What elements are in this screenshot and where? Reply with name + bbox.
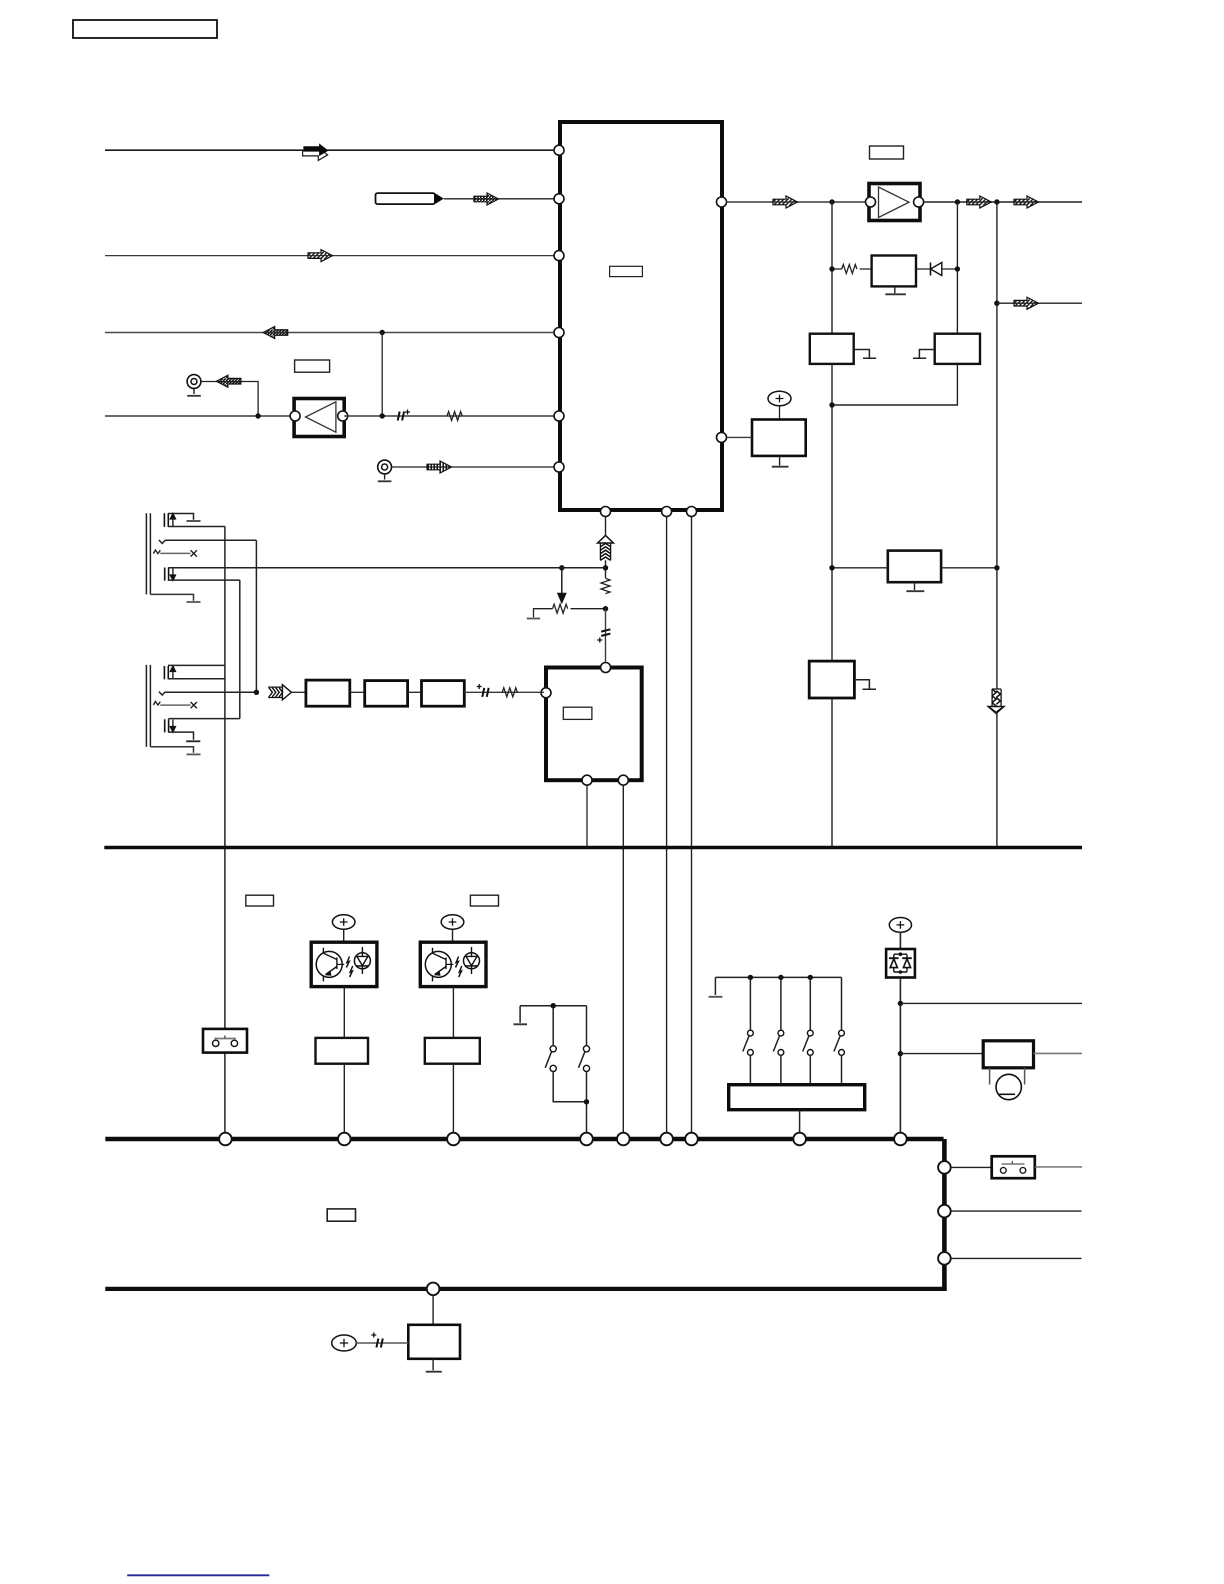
- wire opto1 to R box: [343, 987, 345, 1038]
- bus pin battery: [427, 1283, 440, 1296]
- hatched arrow (left) J1 wire: [216, 375, 241, 387]
- regulator box B3: [752, 420, 806, 456]
- wire box2-box3: [408, 691, 422, 693]
- pin 1 (IC left): [554, 145, 564, 155]
- hatched arrow IC out: [773, 196, 798, 208]
- node junction R3 bottom: [603, 606, 608, 611]
- ground under B4: [906, 582, 924, 591]
- leaf switch box SW2: [992, 1156, 1035, 1178]
- pin amp out: [914, 197, 924, 207]
- chevron right arrow head chain: [268, 685, 291, 700]
- wire SW2 out (gray): [1035, 1166, 1082, 1168]
- wire E4 to diode box: [899, 932, 901, 949]
- mode switch bank common line: [715, 976, 841, 978]
- battery box BB: [408, 1325, 460, 1359]
- wire RB1 to bus: [343, 1064, 345, 1133]
- switch contact row B2: [159, 692, 166, 695]
- chevron up arrow on rec line: [598, 535, 614, 560]
- wire U4 b2 to bus: [622, 785, 624, 1133]
- bus pin keybox: [793, 1133, 806, 1146]
- wire diode box down: [899, 978, 901, 1134]
- digital ground B1: [854, 350, 877, 359]
- wire fb: [860, 268, 958, 270]
- hatched arrow on wire 2: [474, 193, 499, 205]
- wire IC pin to B3: [727, 436, 753, 438]
- label box above buffer: [295, 360, 330, 372]
- wire head2 rec bottom to cap: [168, 732, 193, 740]
- capacitor C3 (polarized): [477, 684, 489, 697]
- vertical rail x997: [996, 202, 998, 847]
- wire row C to X: [160, 552, 190, 554]
- bus pin right v1: [938, 1161, 951, 1174]
- wire box3 to cap: [464, 691, 544, 693]
- pin rec (IC bottom 1): [601, 507, 611, 517]
- wire B4 right: [941, 567, 997, 569]
- pin block2 left: [541, 688, 551, 698]
- vertical rail x957: [956, 202, 958, 334]
- wire row B: [166, 539, 257, 541]
- resistor box RB1: [316, 1038, 369, 1064]
- node junction x997 y303: [994, 301, 999, 306]
- bus pin u4b2: [617, 1133, 630, 1146]
- head 1 rec element (bars + down arrow): [165, 568, 176, 581]
- wire row C2 to X: [160, 704, 190, 706]
- opto coupler PC1: [311, 942, 377, 986]
- wire xA down to bus: [224, 665, 226, 1133]
- wire box1-box2: [350, 691, 365, 693]
- pin block2 bottom2: [618, 775, 628, 785]
- hatched arrow after amp: [967, 196, 992, 208]
- wire E2 to opto1: [343, 929, 345, 942]
- pin b3 (IC bottom 3): [687, 507, 697, 517]
- digital ground B2: [913, 350, 935, 359]
- hatched arrow y303: [1014, 297, 1039, 309]
- wire B4 left: [832, 567, 888, 569]
- bus pin icb2: [660, 1133, 673, 1146]
- pot resistor R4: [553, 604, 568, 613]
- eq box 1: [306, 680, 350, 706]
- supply ellipse E3: [441, 915, 464, 929]
- node junction motor feed 1: [898, 1001, 903, 1006]
- wire row B2 to junction: [165, 691, 256, 693]
- wire E5 to cap: [356, 1342, 408, 1344]
- head assembly 2 chassis line to ground: [150, 747, 193, 753]
- bus pin xA: [219, 1133, 232, 1146]
- wire battery box: [432, 1295, 434, 1325]
- pin block2 bottom1: [582, 775, 592, 785]
- bus pin opto1: [338, 1133, 351, 1146]
- pin 6 (IC left): [554, 462, 564, 472]
- bus pin right v2: [938, 1205, 951, 1218]
- node junction bank1: [748, 975, 753, 980]
- ALC box B6: [872, 256, 916, 287]
- resistor box RB2: [425, 1038, 480, 1064]
- head assembly 1 chassis line to ground: [150, 594, 193, 600]
- wire E1 to B3: [779, 406, 781, 420]
- head 2 rec element (bars + down arrow): [165, 719, 176, 732]
- bus pin dpdt: [580, 1133, 593, 1146]
- node junction motor feed 2: [898, 1051, 903, 1056]
- node junction bank3: [808, 975, 813, 980]
- vertical link rail xB: [255, 540, 257, 692]
- wire to motor box: [900, 1053, 983, 1055]
- striped arrow on wire 6: [427, 461, 452, 473]
- IC U1 internal label box: [610, 266, 643, 276]
- wire E3 to opto2: [452, 929, 454, 942]
- feedback resistor R2: [842, 265, 857, 274]
- main bus (top run): [105, 1137, 943, 1142]
- switch contact row B: [159, 540, 166, 543]
- U4 internal label box: [563, 707, 592, 719]
- bus pin icb3: [685, 1133, 698, 1146]
- box B1 (mute sw): [810, 334, 854, 364]
- hatched arrow on wire 3: [308, 250, 333, 262]
- bus pin right v3: [938, 1252, 951, 1265]
- head 2 bottom lead to rail xA: [168, 678, 225, 680]
- vertical rail x832: [831, 202, 833, 847]
- node junction DPDT bottom: [584, 1099, 589, 1104]
- branch wire from wire4 down to wire5: [381, 333, 383, 417]
- ground under BB: [426, 1359, 442, 1372]
- eq box 3: [422, 681, 465, 707]
- box B4 (power switch circuit): [888, 551, 941, 583]
- vertical resistor R3: [601, 578, 610, 593]
- bus pin motor rail: [894, 1133, 907, 1146]
- head assembly 1 shield bracket: [146, 513, 150, 594]
- node junction J1 branch / wire5: [255, 413, 260, 418]
- switch bank contact 1: [743, 977, 754, 1084]
- motor M1: [990, 1068, 1025, 1100]
- wire amp out to edge: [924, 201, 1082, 203]
- head 1 erase element (bars + up arrow): [164, 513, 175, 527]
- node junction x957: [955, 199, 960, 204]
- node junction DPDT top: [551, 1003, 556, 1008]
- key encoder box KB: [729, 1085, 865, 1110]
- wire x832 to R2: [832, 268, 842, 270]
- label box L5: [327, 1209, 355, 1221]
- ground pot: [527, 618, 540, 620]
- node junction elbow: [829, 402, 834, 407]
- wire head1 rec bottom: [168, 579, 240, 581]
- capacitor C4 (polarized): [371, 1333, 383, 1348]
- pin b2 (IC bottom 2): [662, 507, 672, 517]
- node junction rec/head wire: [603, 565, 608, 570]
- diode D1: [931, 263, 942, 276]
- ground sw bank: [714, 977, 716, 995]
- wire bus out y1211: [951, 1210, 1082, 1212]
- DPDT pause switch group: [514, 1006, 590, 1133]
- pin 4 (IC left): [554, 328, 564, 338]
- pin 5 (IC left): [554, 411, 564, 421]
- pot left lead to ground: [534, 609, 553, 618]
- pin block2 top: [601, 663, 611, 673]
- pin buffer left: [290, 411, 300, 421]
- wire input 1: [105, 149, 554, 151]
- leaf switch box SW1: [203, 1029, 247, 1053]
- switch bank contact 2: [773, 977, 784, 1084]
- eq box 2: [365, 681, 408, 707]
- wire arrow to eq boxes: [292, 691, 306, 693]
- pin supply (IC right): [717, 432, 727, 442]
- head 2 play element (bars + up arrow): [164, 666, 175, 679]
- resistor R1: [447, 412, 462, 421]
- motor governor box MB: [983, 1041, 1033, 1068]
- label box section L3: [246, 895, 274, 906]
- wire bus to SW2: [951, 1166, 992, 1168]
- footer rule (blue): [127, 1574, 269, 1576]
- pin out (IC right, audio out): [717, 197, 727, 207]
- pin buffer right: [338, 411, 348, 421]
- head 1 top lead to ground: [168, 514, 194, 520]
- node junction at x832: [829, 199, 834, 204]
- node junction x997: [994, 199, 999, 204]
- node junction bank2: [778, 975, 783, 980]
- separator line: [104, 846, 1082, 850]
- node junction buffer out: [380, 413, 385, 418]
- wire input 3: [105, 255, 554, 257]
- node junction x957 fb: [955, 266, 960, 271]
- jack J2 (aux connector): [378, 460, 392, 481]
- switch bank contact 3: [803, 977, 813, 1084]
- wire B2 bottom elbow to rail x832: [832, 364, 957, 405]
- switch contact row C (nc): [153, 550, 160, 554]
- hatched down arrow on x997 rail: [988, 689, 1004, 713]
- wire IC b3 down to bus: [691, 517, 693, 1134]
- digital ground B5: [854, 680, 876, 690]
- supply ellipse E2: [332, 915, 355, 929]
- wire head2 rec top to rail xC: [168, 718, 240, 720]
- switch contact row C2 (nc): [153, 701, 160, 705]
- wire input 4: [105, 332, 554, 334]
- node junction wire4/branch: [380, 330, 385, 335]
- node junction x832 fb: [829, 266, 834, 271]
- wire IC out to amp: [727, 201, 871, 203]
- head 2 top lead to rail xA: [168, 664, 225, 666]
- wire opto2 to R box: [452, 987, 454, 1038]
- supply ellipse E5: [332, 1335, 357, 1351]
- capacitor C1 (polarized, coupling): [398, 410, 410, 421]
- vertical link rail xC: [239, 580, 241, 719]
- pot wiper arrow: [558, 568, 566, 603]
- wire input 6: [392, 466, 554, 468]
- vertical link rail xA: [224, 527, 226, 666]
- power supply ellipse E1: [768, 391, 791, 406]
- buffer U3 (inverting stage): [294, 399, 344, 437]
- diode pack DB1 (spark suppressor): [886, 949, 915, 978]
- pin 2 (IC left): [554, 194, 564, 204]
- label box above amp U2: [870, 146, 904, 159]
- ground under B3: [772, 456, 789, 467]
- wire KB to bus: [799, 1110, 801, 1133]
- IC U4 (record/playback block): [546, 668, 642, 781]
- pin amp in: [866, 197, 876, 207]
- wire IC b2 down to bus: [666, 517, 668, 1134]
- wire from J1: [201, 382, 258, 417]
- connector label flag on wire 2: [376, 193, 435, 204]
- node junction row B2: [254, 690, 259, 695]
- box B5 (reg): [809, 661, 854, 698]
- pin 3 (IC left): [554, 251, 564, 261]
- resistor R5: [502, 688, 517, 697]
- wire IC b1 down: [605, 517, 607, 579]
- opto coupler PC2: [420, 942, 486, 986]
- head 1 bottom lead (wire): [168, 526, 225, 528]
- node junction B4 right: [994, 565, 999, 570]
- main bus (bottom run): [105, 1287, 946, 1291]
- node junction pot tap: [559, 565, 564, 570]
- wire 2: [444, 198, 554, 200]
- wire out y303: [997, 302, 1082, 304]
- supply ellipse E4: [889, 918, 911, 933]
- wire buffer out: [344, 415, 554, 417]
- wire down to cap: [605, 609, 607, 662]
- capacitor plate head2: [186, 740, 200, 742]
- bus pin opto2: [447, 1133, 460, 1146]
- head assembly 2 shield bracket: [146, 665, 150, 747]
- jack J1 (mic/line connector): [187, 375, 201, 396]
- title block (empty label box): [73, 20, 217, 38]
- wire out y1003: [900, 1002, 1082, 1004]
- ground under B6: [885, 286, 906, 294]
- solid signal arrow on wire 1: [303, 148, 328, 161]
- wire U4 b1 to separator: [586, 785, 588, 846]
- amp U2 (output amplifier): [869, 184, 920, 221]
- wire pot to rail: [571, 608, 606, 610]
- switch bank contact 4: [834, 977, 844, 1084]
- hatched arrow to edge: [1014, 196, 1039, 208]
- wire motor box out (gray): [1034, 1052, 1083, 1054]
- wire bus out y1258: [951, 1257, 1082, 1259]
- label box section L4: [470, 895, 498, 906]
- X terminator row C2: [191, 702, 197, 708]
- capacitor C2 (polarized) on rail: [597, 629, 610, 642]
- wire RB2 to bus: [452, 1064, 454, 1133]
- node junction B4 left: [829, 565, 834, 570]
- wire head1 rec top (long to pot): [168, 567, 605, 569]
- X terminator row C: [191, 550, 197, 556]
- wire input 5: [105, 415, 295, 417]
- IC U1 (main processor block): [560, 122, 722, 510]
- hatched arrow (left) on wire 4: [263, 327, 288, 339]
- main bus (right vertical): [942, 1139, 947, 1289]
- box B2 (mute sw): [935, 334, 980, 364]
